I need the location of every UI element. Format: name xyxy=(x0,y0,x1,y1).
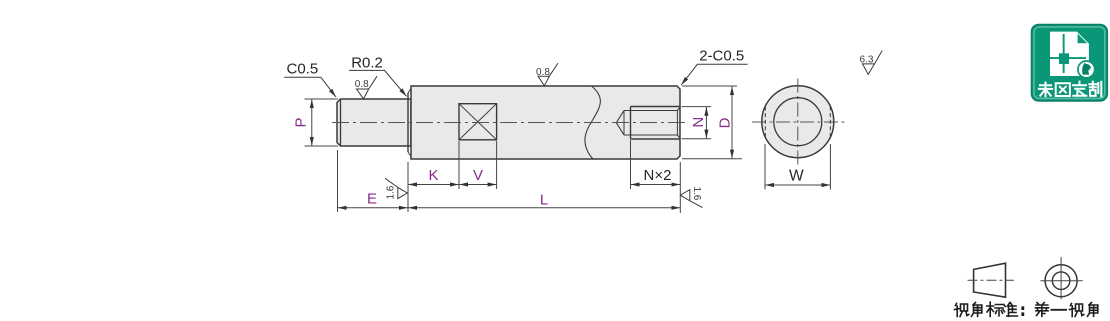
hidden flat left xyxy=(764,107,766,138)
roughness 1.6 at shoulder extension xyxy=(385,178,407,198)
roughness 1.6 at right face extension xyxy=(680,190,702,208)
dimension N x2 xyxy=(631,140,681,189)
dimension N xyxy=(682,107,712,139)
svg-text:W: W xyxy=(789,168,804,185)
caption 视角标准：第一视角 xyxy=(955,302,1098,317)
svg-text:N: N xyxy=(690,117,707,128)
glyph shi1 xyxy=(955,304,969,317)
glyph lai xyxy=(1039,83,1052,97)
svg-text:R0.2: R0.2 xyxy=(351,54,383,71)
svg-text:K: K xyxy=(428,167,438,184)
svg-text:6.3: 6.3 xyxy=(860,54,874,65)
svg-text:D: D xyxy=(717,117,734,128)
end view centerline vertical xyxy=(797,79,799,168)
glyph tu xyxy=(1056,83,1070,96)
trapezoid centerline xyxy=(968,279,1014,281)
break section curve xyxy=(585,86,600,159)
first angle circles symbol xyxy=(1045,265,1077,297)
circles crosshair xyxy=(1041,280,1083,282)
shoulder chamfer diagonals xyxy=(408,89,411,94)
roughness 6.3 general xyxy=(863,51,883,75)
small shaft P section xyxy=(337,99,411,146)
badge crosshair center square xyxy=(1059,53,1069,64)
svg-text:1.6: 1.6 xyxy=(386,185,397,199)
tapped hole minor diameter lines xyxy=(624,110,677,112)
dimension D xyxy=(682,86,742,159)
first angle trapezoid symbol xyxy=(974,263,1006,297)
big shaft D section xyxy=(411,86,680,159)
svg-text:E: E xyxy=(367,190,377,207)
glyph yi xyxy=(1052,309,1067,311)
glyph zhi xyxy=(1089,82,1101,97)
svg-text:2-C0.5: 2-C0.5 xyxy=(699,48,744,65)
svg-text:V: V xyxy=(473,167,483,184)
badge crosshair horizontal xyxy=(1044,57,1086,59)
svg-text:N×2: N×2 xyxy=(644,167,672,184)
badge text 来图定制 xyxy=(1039,82,1102,97)
svg-text:0.8: 0.8 xyxy=(355,79,369,90)
dimension P xyxy=(305,99,339,146)
dimension W xyxy=(765,144,830,190)
hole entrance chamfer xyxy=(676,111,678,136)
end view inner circle xyxy=(774,98,822,146)
svg-text:1.6: 1.6 xyxy=(691,186,702,200)
keyway diagonal 2 xyxy=(459,104,497,140)
shoulder face line xyxy=(407,93,409,152)
glyph di xyxy=(1036,303,1049,317)
glyph jiao1 xyxy=(972,303,982,317)
custom badge green xyxy=(1032,25,1108,101)
dimension K xyxy=(408,184,458,186)
dimension E xyxy=(338,150,408,212)
badge fold triangle xyxy=(1078,34,1088,44)
glyph ding xyxy=(1073,82,1086,96)
badge document icon xyxy=(1050,32,1089,76)
dimension L xyxy=(408,207,680,209)
drill cone point xyxy=(616,111,624,136)
keyway square xyxy=(459,104,497,140)
glyph colon xyxy=(1021,308,1024,315)
badge eagle circle xyxy=(1078,61,1095,78)
roughness 0.8 on small shaft xyxy=(357,76,378,99)
badge crosshair vertical xyxy=(1063,34,1065,73)
svg-text:L: L xyxy=(540,191,548,208)
centerline main view xyxy=(332,122,688,124)
end view outer circle xyxy=(762,86,834,158)
svg-text:C0.5: C0.5 xyxy=(287,60,319,77)
svg-text:P: P xyxy=(293,117,310,127)
glyph jiao2 xyxy=(1088,303,1098,317)
chamfer edge line left end xyxy=(340,99,342,146)
dimension V xyxy=(459,141,497,189)
shared extension line shoulder xyxy=(407,162,409,212)
tapped hole thread major lines xyxy=(631,106,681,108)
svg-text:0.8: 0.8 xyxy=(536,67,550,78)
glyph zhun xyxy=(1003,303,1018,317)
keyway diagonal 1 xyxy=(459,104,497,140)
shared extension line right face xyxy=(679,162,681,213)
glyph biao xyxy=(987,302,1003,316)
roughness 0.8 on big shaft xyxy=(538,63,558,86)
hidden flat right xyxy=(829,107,831,138)
end view centerline horizontal xyxy=(752,121,846,123)
glyph shi2 xyxy=(1070,304,1084,317)
